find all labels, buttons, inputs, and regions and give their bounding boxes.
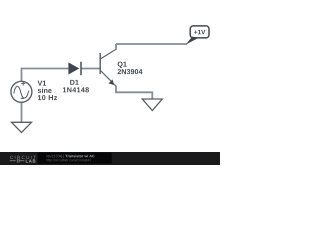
label V1 [38,81,47,86]
wire Q1 emitter to right ground [116,86,152,99]
wire V1 bottom to left ground [21,102,23,122]
wire Q1 collector to +1V net flag [116,43,187,45]
ground symbol (left, below V1) [12,122,32,132]
value label 10 Hz [38,95,57,100]
label D1 [70,80,79,85]
Q1 emitter arrowhead [109,79,114,85]
value label sine [38,88,52,93]
Q1 emitter lead [101,71,116,86]
V1 sine waveform [14,86,29,98]
footer bar [0,152,220,165]
footer black box [38,153,112,164]
net flag text +1V [194,30,205,34]
value label 1N4148 [63,87,89,92]
Q1 collector lead [101,49,116,59]
Q1 collector pin stub [115,44,117,50]
value label 2N3904 [118,69,143,74]
+1V net flag tail [186,37,199,45]
transistor Q1 base bar [99,53,101,74]
voltage source V1 circle [11,81,32,102]
CircuitLab logo wire motif [10,159,24,163]
V1 plus sign [21,82,25,86]
wire V1 top to diode anode [22,69,69,82]
diode D1 cathode bar [80,62,82,75]
CircuitLab logo text LAB [26,159,36,162]
label Q1 [118,62,127,68]
ground symbol (right, below Q1 emitter) [142,99,162,111]
V1 minus sign [21,97,24,99]
+1V net flag box [190,26,209,38]
wire diode cathode to Q1 base [81,68,100,70]
CircuitLab logo text CIRCUIT [10,156,36,159]
footer title text [65,155,94,158]
footer url text [46,159,91,162]
diode D1 triangle [68,62,79,74]
footer revision text [46,155,63,158]
